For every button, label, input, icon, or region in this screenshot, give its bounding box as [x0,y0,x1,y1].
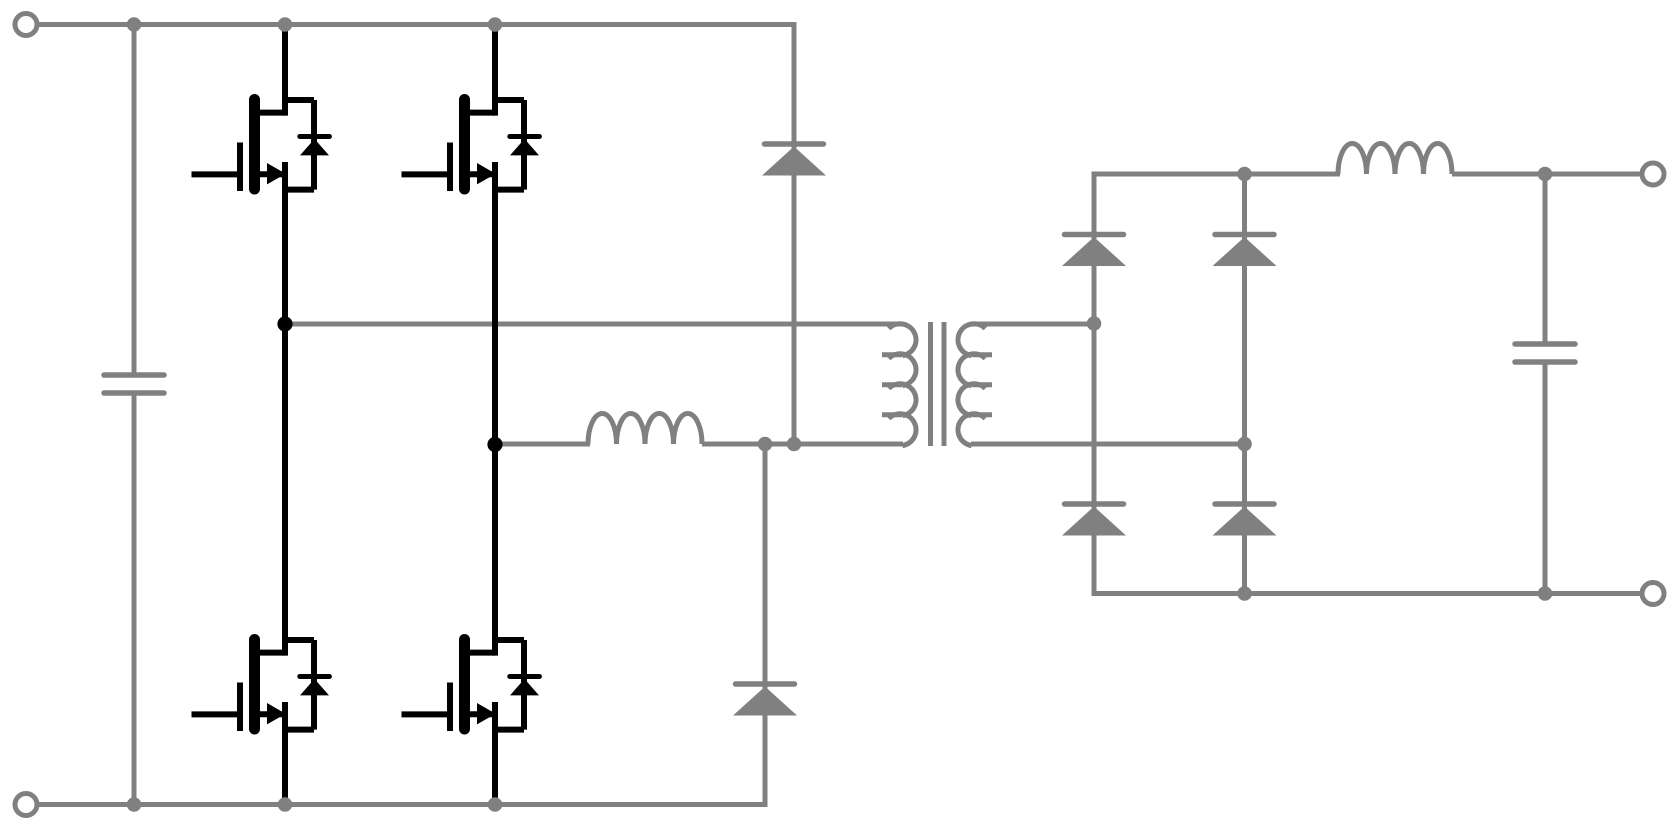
input terminal negative [15,794,37,816]
junction output cap bottom [1538,586,1553,601]
transformer T1 secondary winding [958,324,992,446]
transformer T1 primary winding [882,324,916,446]
wire rectifier right leg [1242,174,1247,594]
wire rectifier top rail [1092,172,1341,177]
node B bridge right midpoint [487,437,502,452]
wire secondary bottom lead [971,442,1245,447]
inductor L1 resonant [588,413,702,444]
junction bottom rail M3 [278,797,293,812]
diode D4 rectifier upper right [1213,235,1277,267]
capacitor C2 output [1515,344,1575,362]
output terminal negative [1642,583,1664,605]
wire M4 source to bottom rail [492,702,498,805]
junction secondary to rectifier left [1087,316,1102,331]
capacitor C1 input [104,375,164,393]
junction top rail M2 [488,17,503,32]
wire right leg M2 source to M4 drain [492,162,498,656]
wire bottom input rail [38,802,768,807]
output terminal positive [1642,163,1664,185]
wire top input rail [38,22,797,27]
transistor Q4 MOSFET lower right [402,640,540,732]
input terminal positive [15,14,37,36]
transistor Q2 MOSFET upper right [402,100,540,192]
wire output inductor to terminal [1452,172,1641,177]
junction bottom rail capacitor [127,797,142,812]
junction bottom rail M4 [488,797,503,812]
transistor Q1 MOSFET upper left [192,100,330,192]
diode D2 clamp bottom [733,684,797,716]
wire clamp diode D2 branch [763,444,768,807]
diode D6 rectifier lower right [1213,504,1277,536]
wire secondary top lead [971,322,1094,327]
wire inductor to transformer primary bottom [702,442,903,447]
wire clamp diode D1 branch [792,22,797,444]
wire M1 drain from top rail [282,25,288,116]
diode D5 rectifier lower left [1062,504,1126,536]
wire input capacitor top leg [132,25,137,376]
node A bridge left midpoint [277,316,292,331]
junction rectifier top rail right leg [1237,167,1252,182]
junction rectifier bottom rail right leg [1237,586,1252,601]
junction top rail M1 [278,17,293,32]
junction secondary to rectifier right [1237,437,1252,452]
wire node A to transformer primary top [285,322,903,327]
junction output cap top [1538,167,1553,182]
wire input capacitor bottom leg [132,393,137,805]
wire output capacitor bottom leg [1543,362,1548,594]
diode D3 rectifier upper left [1062,235,1126,267]
wire rectifier bottom rail [1092,591,1642,596]
diode D1 clamp top [762,144,826,176]
inductor L2 output filter [1338,144,1452,175]
wire M3 source to bottom rail [282,702,288,805]
junction top rail capacitor [127,17,142,32]
wire M2 drain from top rail [492,25,498,116]
transistor Q3 MOSFET lower left [192,640,330,732]
transformer T1 core [931,322,945,446]
wire node B to resonant inductor [495,442,590,447]
junction D2 top [758,437,773,452]
wire left leg M1 source to M3 drain [282,162,288,656]
wire rectifier left leg [1092,172,1097,597]
junction D1 bottom [787,437,802,452]
wire output capacitor top leg [1543,174,1548,344]
